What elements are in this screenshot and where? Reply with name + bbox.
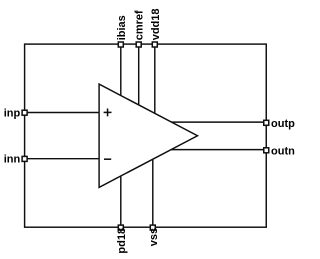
svg-text:ibias: ibias	[116, 15, 128, 40]
svg-text:inn: inn	[4, 154, 21, 166]
svg-text:vss: vss	[148, 228, 160, 246]
svg-text:inp: inp	[4, 107, 21, 119]
svg-text:vdd18: vdd18	[150, 9, 162, 41]
svg-text:outn: outn	[271, 146, 295, 158]
svg-text:pd18: pd18	[116, 228, 128, 254]
svg-text:outp: outp	[271, 118, 295, 130]
svg-text:cmref: cmref	[134, 10, 146, 40]
